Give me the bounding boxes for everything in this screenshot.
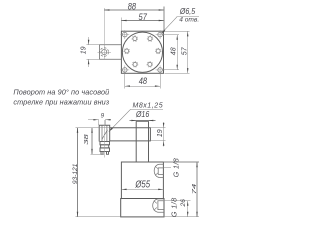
- svg-text:G 1/8: G 1/8: [171, 158, 180, 178]
- flange slab (side view): [110, 128, 151, 141]
- stem feet: [101, 152, 109, 155]
- square flange outline: [121, 31, 163, 73]
- dim 9: [88, 119, 111, 125]
- tab hole centerline up to dim 88: [103, 8, 105, 59]
- dim 19 (top view tab): [87, 37, 100, 67]
- upper port G1/8: [154, 164, 163, 177]
- svg-text:стрелке при нажатии вниз: стрелке при нажатии вниз: [13, 98, 109, 107]
- dim 74: [163, 162, 199, 217]
- svg-text:Ø16: Ø16: [135, 110, 150, 120]
- dim 88: [104, 7, 164, 31]
- corner hole bottom-left: [120, 65, 129, 74]
- svg-text:93-121: 93-121: [72, 163, 79, 184]
- knob nut stack: [100, 142, 110, 145]
- svg-text:4 отв.: 4 отв.: [179, 17, 199, 24]
- lower port G1/8: [153, 199, 164, 212]
- dim Ø16 line with arrows: [130, 120, 156, 122]
- svg-text:Поворот на 90° по часовой: Поворот на 90° по часовой: [13, 87, 109, 96]
- corner hole top-left: [120, 30, 129, 39]
- svg-text:26: 26: [180, 199, 187, 208]
- svg-text:9: 9: [101, 113, 105, 120]
- svg-text:G 1/8: G 1/8: [169, 198, 178, 218]
- svg-text:74: 74: [191, 183, 197, 195]
- body upper block: [121, 162, 163, 199]
- dim 93-121: [76, 128, 120, 217]
- dim 57 top: [121, 17, 163, 31]
- svg-text:88: 88: [128, 0, 137, 11]
- svg-text:48: 48: [170, 47, 177, 55]
- body circle Ø55 (top view): [122, 32, 162, 72]
- body lower block: [121, 199, 164, 217]
- svg-text:М8х1,25: М8х1,25: [132, 102, 163, 109]
- knob body: [99, 125, 110, 141]
- svg-text:57: 57: [139, 11, 148, 22]
- knob centerline: [103, 120, 105, 158]
- dim 48 bottom: [125, 73, 160, 89]
- six threaded holes on bolt circle: [125, 37, 160, 67]
- svg-text:Ø55: Ø55: [134, 178, 150, 189]
- svg-text:57: 57: [181, 46, 188, 55]
- svg-text:38: 38: [83, 133, 89, 145]
- tab threaded hole: [97, 48, 111, 57]
- dim 38: [91, 128, 105, 154]
- side tab (top view): [99, 45, 121, 60]
- svg-text:Ø6,5: Ø6,5: [179, 7, 196, 17]
- corner hole bottom-right: [156, 65, 165, 74]
- dim 19 (side): [150, 122, 165, 147]
- corner hole top-right: [156, 30, 165, 39]
- svg-text:19: 19: [157, 129, 164, 137]
- dim 26: [187, 201, 189, 217]
- stem column Ø16: [136, 121, 148, 162]
- svg-text:48: 48: [139, 75, 148, 86]
- svg-text:19: 19: [80, 46, 87, 54]
- dim 57 right: [165, 31, 190, 73]
- dim 48 right: [163, 35, 180, 70]
- dim Ø55: [121, 188, 163, 190]
